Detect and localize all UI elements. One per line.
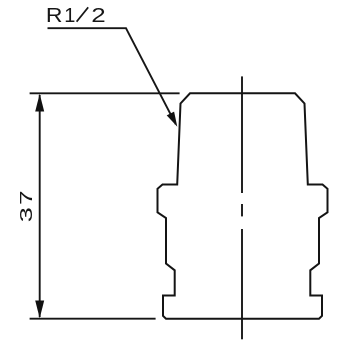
- extension line top: [30, 92, 180, 94]
- svg-text:R: R: [46, 3, 63, 26]
- arrowhead top: [35, 94, 44, 112]
- svg-text:1: 1: [64, 5, 75, 27]
- part outline: [158, 93, 328, 318]
- leader arrowhead: [167, 112, 178, 127]
- centerline (dash-dot vertical axis): [241, 76, 243, 339]
- svg-text:3: 3: [16, 207, 36, 222]
- svg-text:2: 2: [91, 4, 105, 26]
- dimension line 37: [39, 95, 41, 317]
- leader line for R1/2: [48, 28, 176, 124]
- svg-text:7: 7: [16, 190, 36, 205]
- extension line bottom: [30, 318, 156, 320]
- arrowhead bottom: [35, 301, 44, 319]
